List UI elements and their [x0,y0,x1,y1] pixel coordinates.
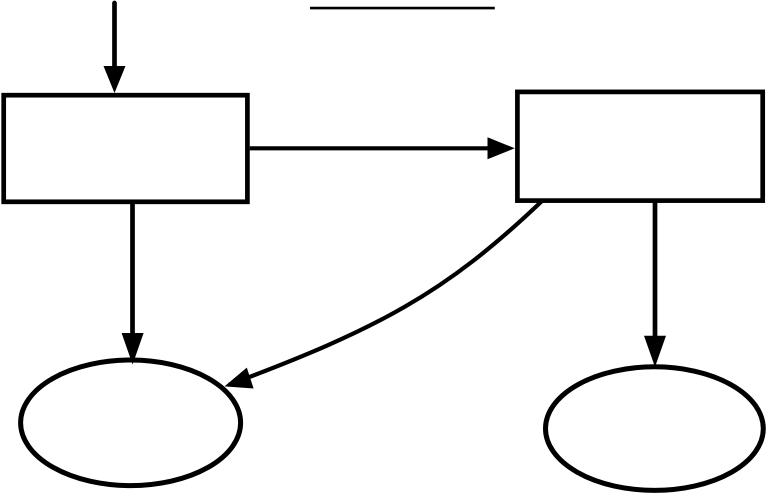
wire: curved arrow from B2 bottom to ellipse E1 [229,200,543,385]
arrowhead at B2 left edge [488,137,515,159]
arrowhead of curved arrow at E1 [225,368,254,389]
wire: arrow shaft B2 down to ellipse E2 [653,201,658,340]
ellipse E2 (bottom-right) [546,367,764,491]
wire: arrow shaft B1 to B2 [250,146,490,150]
arrowhead into box B1 [104,66,126,93]
wire: arrow shaft B1 down to ellipse E1 [130,202,135,337]
wire: arrow shaft into box B1 [112,3,117,70]
ellipse E1 (bottom-left) [21,360,241,486]
arrowhead at ellipse E2 top [644,336,666,367]
title underline [310,7,495,10]
box B2 (top-right rectangle) [517,92,762,201]
arrowhead at ellipse E1 top [122,333,144,365]
box B1 (top-left rectangle) [4,95,248,202]
